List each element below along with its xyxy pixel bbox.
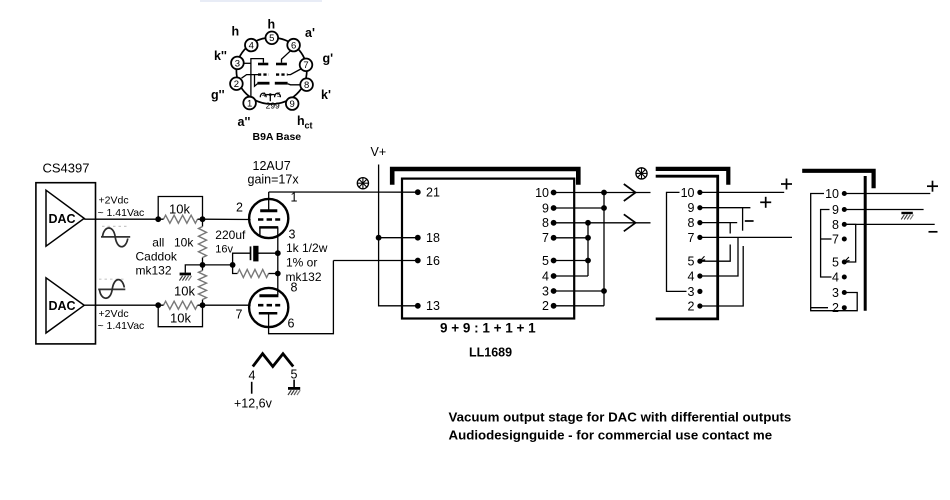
node G junction (cap to cathode line) [275,250,281,256]
socket heater pin label 4 [262,92,266,99]
socket pin 5 circle [266,32,279,45]
svg-text:16: 16 [426,254,440,268]
wire XLR1 pin10 output (+) [700,191,784,193]
svg-text:8: 8 [688,216,695,230]
socket left grid (g'') [258,73,269,75]
svg-text:+2Vdc: +2Vdc [99,195,129,207]
wire T1 pin5 to bus [554,260,588,262]
tick mark at XLR1 pin5 dot [701,256,706,260]
wire XLR2 pin8 output (-) [844,223,934,225]
svg-text:6: 6 [291,41,296,52]
svg-text:299: 299 [266,101,280,111]
node V+ to pin18 junction [376,235,382,241]
connector XLR1 pin 2 terminal [688,299,703,313]
socket pin 3 circle [231,57,244,70]
wire T1 pin8 output [554,222,651,224]
transformer T1 pin 10 terminal [535,186,556,200]
connector XLR1 pin 7 terminal [688,231,703,245]
svg-text:8: 8 [542,216,549,230]
socket left cathode (k'') [257,82,269,85]
svg-text:4: 4 [688,269,695,283]
svg-text:Audiodesignguide - for commerc: Audiodesignguide - for commercial use co… [449,428,773,443]
wire node B to tube grid pin2 [203,218,251,220]
transformer T1 pin 5 terminal [542,254,556,268]
svg-text:3: 3 [289,228,296,242]
resistor R4 bypass loop wire [158,305,202,327]
socket internal lead left cathode stub [255,75,258,87]
wire node C to ground [185,265,202,273]
socket internal lead pin3 [243,62,251,64]
svg-text:~ 1.41Vac: ~ 1.41Vac [98,320,145,332]
svg-text:2: 2 [542,299,549,313]
svg-text:21: 21 [426,186,440,200]
wire V+ to transformer pin 18 [379,237,418,239]
connector XLR2 pin 8 terminal [832,218,847,232]
pin label 6 [288,317,295,331]
label ~1.41Vac (top) [98,207,145,219]
node C junction (divider mid) [200,262,206,268]
transformer T1 LL1689 box [402,179,574,319]
triode U2a plate bar [260,209,277,212]
svg-text:DAC: DAC [49,212,76,226]
socket pin 8 circle [300,78,313,91]
triode U2b grid dashes [258,304,280,307]
label 220uf 16v [215,228,246,255]
label 10k (R4) [170,311,191,326]
tick mark at XLR2 pin5 dot [845,257,850,261]
node k'' [214,49,227,63]
socket right cathode (k') [275,82,288,85]
node h (top) [268,18,276,32]
svg-text:8: 8 [832,218,839,232]
socket internal lead pin1 to left plate [251,59,264,98]
svg-text:3: 3 [688,285,695,299]
svg-text:k': k' [321,88,331,102]
socket heater pin label 5 [277,92,281,99]
socket pin 9 circle [286,97,299,110]
wire XLR1 jumper 7-4 [700,237,738,276]
label +2Vdc (top) [99,195,129,207]
resistor R1 bypass loop wire [158,197,202,220]
wire XLR1 pin8 with stub [700,223,737,234]
wire T1 series bus 8-7-5-4 [585,220,591,276]
socket caption B9A Base [253,131,302,143]
svg-text:220uf: 220uf [215,228,246,242]
svg-text:a': a' [305,26,315,40]
node a' [305,26,315,40]
connector XLR2 shield bar (staple) [802,171,873,188]
svg-text:4: 4 [249,41,254,52]
wire XLR2 jumper 9-7-4 (inner left loop) [821,210,832,278]
svg-text:1k 1/2w: 1k 1/2w [286,241,328,255]
svg-text:~ 1.41Vac: ~ 1.41Vac [98,207,145,219]
svg-text:18: 18 [426,231,440,245]
wire XLR1 jumper 10-3 (left loop) [667,192,687,291]
svg-text:4: 4 [542,269,549,283]
svg-text:8: 8 [291,281,298,295]
svg-text:7: 7 [303,60,308,71]
svg-text:4: 4 [262,92,266,99]
label - (XLR2 pin8) [929,231,938,233]
svg-text:g'': g'' [211,88,225,102]
transformer T1 pin 8 terminal [542,216,556,230]
pin label 1 [291,191,298,205]
svg-text:10k: 10k [169,202,190,217]
wire node D to tube grid pin7 [203,304,251,306]
svg-text:CS4397: CS4397 [43,161,90,176]
svg-text:2: 2 [832,301,839,315]
connector XLR1 body (C-frame) [656,176,718,319]
svg-text:Vacuum output stage for DAC wi: Vacuum output stage for DAC with differe… [449,410,792,425]
svg-text:5: 5 [277,92,281,99]
label + (XLR2 pin10) [927,181,938,192]
resistor R5 1k cathode [233,265,278,278]
wire DAC2 output to node E [84,304,158,306]
svg-text:3: 3 [542,284,549,298]
socket left plate (a'') [258,63,268,66]
ground (divider) [179,274,191,281]
wire T1 pin3 to bus [554,290,604,292]
transformer T1 pin 4 terminal [542,269,556,283]
svg-text:10k: 10k [170,311,191,326]
transformer T1 pin 13 terminal [415,299,440,313]
node g'' [211,88,225,102]
caption line 1 [449,410,792,425]
pin label 3 [289,228,296,242]
connector XLR1 pin 9 terminal [688,201,703,215]
svg-text:2: 2 [236,201,243,215]
transformer T1 pin 9 terminal [542,201,556,215]
ground (heater) [288,388,300,395]
label 12AU7 [253,159,291,173]
node k' [321,88,331,102]
svg-text:gain=17x: gain=17x [248,173,300,187]
transformer T1 pin 21 terminal [415,186,440,200]
svg-text:h: h [232,25,240,39]
socket right plate (a') [276,63,287,66]
svg-text:9: 9 [688,201,695,215]
svg-text:8: 8 [304,80,309,91]
label + (XLR1 pin9) [760,197,771,208]
transformer T1 pin 18 terminal [415,231,440,245]
svg-text:h: h [297,114,305,128]
node hct [297,114,313,131]
label 10k (R3) [174,283,195,298]
svg-text:5: 5 [542,254,549,268]
svg-text:a'': a'' [238,115,251,129]
svg-text:1: 1 [247,98,252,109]
svg-text:2: 2 [234,79,239,90]
svg-text:+2Vdc: +2Vdc [99,308,129,320]
svg-text:10k: 10k [174,283,195,298]
ground (XLR2 pin9) [901,213,913,219]
tube socket outline (B9A base ring) [236,38,306,104]
triode U2b plate bar [259,294,278,297]
svg-text:7: 7 [688,231,695,245]
sine waveform icon (bottom, inverted) [98,279,125,298]
socket heater loop pin4 side [260,93,266,97]
svg-text:2: 2 [688,299,695,313]
wire T1 pin10 output [554,192,651,194]
svg-text:5: 5 [688,255,695,269]
connector XLR1 pin 5 terminal [688,255,703,269]
svg-text:LL1689: LL1689 [469,346,512,360]
svg-text:V+: V+ [371,145,387,159]
triode U2b cathode lead (pin 6) [269,261,334,334]
svg-text:Caddok: Caddok [136,249,178,263]
connector XLR1 pin 4 terminal [688,269,703,283]
pin label 2 [236,201,243,215]
connector XLR2 pin 5 terminal [832,255,847,269]
wire T1 pin9 to bus [554,207,604,209]
wire DAC1 output to node A [84,218,158,220]
svg-text:7: 7 [236,308,243,322]
wire V+ rail vertical [379,165,418,306]
heater pin label 5 [291,368,298,382]
connector symbol (circled spokes) near V+ [357,178,368,189]
svg-text:k'': k'' [214,49,227,63]
label + (XLR1 pin10) [781,179,792,190]
svg-text:10: 10 [825,187,839,201]
socket label 299 [266,101,280,111]
socket heater center tap wire [266,93,275,101]
triode U2a (12AU7 top) envelope [249,199,288,238]
transformer T1 pin 7 terminal [542,231,556,245]
connector XLR2 pin 9 terminal [832,203,847,217]
svg-text:g': g' [323,52,334,66]
label all 10k / Caddok / mk132 [136,236,195,278]
svg-text:16v: 16v [215,243,233,255]
wire heater pin5 down [293,380,295,388]
svg-text:4: 4 [832,270,839,284]
socket heater loop pin5 side [275,93,281,97]
resistor R2 10k (upper divider) [199,219,207,265]
sine waveform icon (top, non-inverted) [101,226,130,246]
net label V+ [371,145,387,159]
transformer T1 shield bar (staple) [392,169,578,185]
wire XLR2 pin9 output [844,209,923,211]
arrow on pin10 output [624,184,636,201]
resistor R4 10k (bottom series) [158,301,202,309]
node B junction [200,216,206,222]
wire T1 pin7 to bus [554,237,588,239]
pin label 7 [236,308,243,322]
label 9 + 9 : 1 + 1 + 1 [440,321,536,336]
svg-text:10: 10 [681,186,695,200]
node a'' [238,115,251,129]
connector XLR2 pin 10 terminal [825,187,847,201]
svg-text:5: 5 [832,255,839,269]
wire XLR1 jumper 9-2 (lower part) [700,246,743,306]
svg-text:5: 5 [269,33,274,44]
wire cathode line pin3 to pin8 [277,238,279,296]
connector XLR1 pin 10 terminal [681,186,703,200]
triode U2b cathode bar [259,312,278,315]
svg-text:12AU7: 12AU7 [253,159,291,173]
transformer T1 pin 16 terminal [415,254,440,268]
svg-text:all: all [152,236,164,250]
wire XLR1 jumper 8-5 (lower part) [700,245,730,262]
pin label 8 [291,281,298,295]
connector XLR1 pin 8 terminal [688,216,703,230]
label +2Vdc (bottom) [99,308,129,320]
connector XLR1 pin 3 terminal [688,285,703,299]
transformer T1 pin 3 terminal [542,284,556,298]
triode U2a grid dashes [258,218,280,221]
triode U2a plate lead (pin 1) [268,192,270,211]
buffer DAC (top) triangle [46,190,84,246]
wire XLR1 pin7 output long [700,236,792,238]
node g' [323,52,334,66]
buffer DAC (bottom) triangle [46,278,84,333]
wire XLR2 jumper 8-5 (right) [844,224,855,262]
wire XLR2 jumper 10-2-3 (left loop) [811,194,858,311]
socket pin 7 circle [300,59,313,72]
svg-text:7: 7 [542,231,549,245]
svg-text:13: 13 [426,299,440,313]
socket pin 6 circle [287,39,300,52]
connector XLR2 pin 7 terminal [832,232,847,246]
svg-text:4: 4 [249,369,256,383]
resistor R3 10k (lower divider) [199,265,207,305]
wire T1 series bus 10-9-3-2 [601,190,607,306]
svg-text:9: 9 [290,99,295,110]
wire XLR1 pin9 with stub [700,208,751,231]
socket internal lead pin7 to right grid [288,69,301,75]
transformer T1 pin 2 terminal [542,299,556,313]
socket right grid (g') [276,73,288,75]
connector XLR2 body bar [864,176,867,311]
IC U1 label CS4397 [43,161,90,176]
socket pin 2 circle [230,77,243,90]
wire XLR2 pin10 output (+) [844,193,930,195]
svg-text:9: 9 [542,201,549,215]
svg-text:B9A Base: B9A Base [253,131,302,143]
connector XLR2 pin 3 terminal [832,286,847,300]
node H junction (res to cathode line) [275,271,281,277]
heater pin label 4 [249,369,256,383]
svg-text:6: 6 [288,317,295,331]
wire heater pin4 down [251,382,253,394]
heater zigzag (pins 4-5) [253,354,293,367]
svg-text:1% or: 1% or [286,256,317,270]
wire T1 pin2 to bus [554,305,604,307]
svg-text:7: 7 [832,232,839,246]
socket pin 1 circle [243,97,256,110]
node D junction [200,302,206,308]
svg-text:mk132: mk132 [136,263,172,277]
IC U1 CS4397 box [36,183,96,344]
node h (upper-left) [232,25,240,39]
triode U2a cathode lead (pin 3) [277,227,279,237]
arrow on pin8 output [624,214,636,231]
svg-text:5: 5 [291,368,298,382]
connector symbol (circled spokes) near XLR1 [636,168,647,179]
svg-text:3: 3 [832,286,839,300]
capacitor C1 220uf 16v [233,246,278,265]
connector XLR2 pin 4 terminal [832,270,847,284]
triode U2a cathode bar [259,227,278,235]
resistor R1 10k (top series) [158,215,202,223]
label 10k (R1) [169,202,190,217]
svg-text:3: 3 [235,58,240,69]
wire T1 pin4 to bus [554,275,588,277]
svg-text:ct: ct [305,121,313,131]
wire tube pin1 to transformer pin 21 [269,191,418,193]
label 1k 1/2w 1% or mk132 [286,241,328,284]
wire tube pin6 line to transformer pin 16 [333,260,417,262]
svg-text:9: 9 [832,203,839,217]
socket internal lead pin6 to right plate [282,51,291,63]
wire node C to node F [203,264,233,266]
socket internal lead pin8 to right cathode [288,84,301,85]
svg-text:10k: 10k [174,236,194,250]
socket pin 4 circle [245,39,258,52]
label LL1689 [469,346,512,360]
svg-text:+12,6v: +12,6v [234,397,273,411]
connector XLR1 shield bar (staple) [656,169,729,185]
label - (XLR1 pin8) [745,220,754,222]
svg-text:DAC: DAC [49,299,76,313]
node E junction [155,302,161,308]
node F junction [230,262,236,268]
triode U2b (12AU7 bottom) envelope [249,288,288,327]
label +12,6v [234,397,273,411]
label gain=17x [248,173,300,187]
svg-text:h: h [268,18,276,32]
connector XLR2 pin 2 terminal [832,301,847,315]
caption line 2 [449,428,773,443]
label ~1.41Vac (bottom) [98,320,145,332]
node A junction [155,216,161,222]
socket internal lead pin2 to left grid [242,75,259,79]
svg-text:10: 10 [535,186,549,200]
svg-text:9 + 9 : 1 + 1 + 1: 9 + 9 : 1 + 1 + 1 [440,321,536,336]
